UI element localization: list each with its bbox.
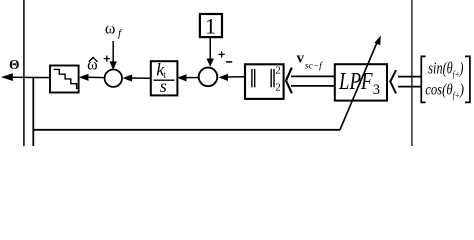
- constant block 1: [200, 14, 222, 37]
- wire omega_f down into sum1: [112, 41, 114, 63]
- output arrowhead: [1, 73, 13, 81]
- input vector right bracket: [465, 56, 470, 102]
- summing junction sum2: [199, 68, 218, 87]
- svg-text:Θ: Θ: [9, 57, 20, 72]
- input vector left bracket: [421, 56, 425, 102]
- svg-text:2: 2: [275, 82, 281, 94]
- input vector row sin: [428, 59, 463, 79]
- open arrow input to LPF3: [398, 76, 421, 78]
- adaptation diagonal arrow through LPF3: [340, 40, 378, 130]
- wire feedback down and along bottom: [32, 77, 34, 146]
- input vector row cos: [425, 81, 464, 100]
- LPF3 block: [335, 64, 387, 100]
- wire output to quantizer: [11, 76, 50, 78]
- svg-text:v: v: [297, 51, 305, 67]
- svg-text:1: 1: [205, 14, 216, 39]
- quantizer block: [50, 66, 79, 93]
- svg-text:3: 3: [373, 82, 380, 98]
- norm-squared block: [245, 64, 284, 99]
- plus sign sum2: [219, 53, 225, 55]
- right border line: [411, 0, 413, 146]
- wire constant 1 down into sum2: [209, 37, 211, 59]
- open arrow LPF3 to norm block: [291, 75, 334, 77]
- wire k1s to sum1 with arrowhead: [131, 77, 152, 79]
- svg-text:sc−f: sc−f: [305, 60, 323, 71]
- svg-text:2: 2: [275, 64, 281, 76]
- minus sign sum2: [226, 61, 232, 63]
- integrator block k1/s: [151, 61, 178, 95]
- wire norm to sum2 with arrowhead: [227, 76, 245, 78]
- left border line: [23, 0, 25, 146]
- svg-text:LPF: LPF: [338, 69, 373, 95]
- svg-text:s: s: [160, 76, 167, 96]
- summing junction sum1: [105, 70, 122, 87]
- plus sign sum1: [104, 58, 110, 60]
- wire sum2 to k1s with arrowhead: [187, 77, 200, 79]
- wire sum1 to quantizer with arrowhead: [88, 76, 104, 78]
- svg-text:ω: ω: [105, 20, 116, 37]
